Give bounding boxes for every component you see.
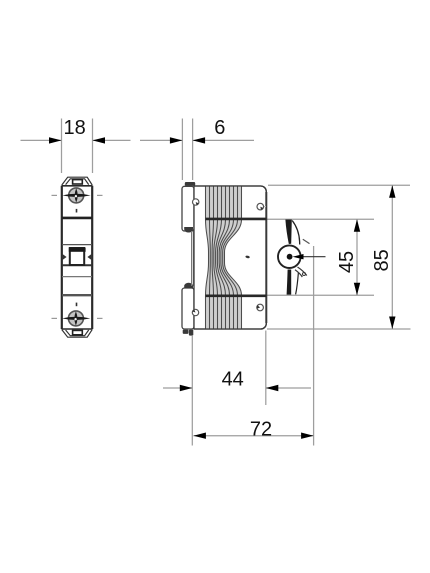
svg-text:45: 45 xyxy=(336,251,358,273)
svg-text:72: 72 xyxy=(250,419,272,441)
side view small moulding mark xyxy=(245,255,250,258)
dimension 85 (overall height) xyxy=(267,185,411,329)
side view rail plane strip between tabs xyxy=(192,231,194,286)
dimension 45 (toggle span) xyxy=(267,219,374,295)
toggle alternate position fork xyxy=(295,267,307,277)
dimension 18 (front view width) xyxy=(21,119,131,174)
toggle pivot dot xyxy=(287,254,293,260)
svg-text:85: 85 xyxy=(371,249,393,271)
svg-text:18: 18 xyxy=(63,117,85,139)
front view bottom cap xyxy=(62,330,92,338)
front view toggle handle xyxy=(69,248,86,265)
side view rivet on bottom tab xyxy=(192,309,198,315)
toggle lever bottom blade xyxy=(287,270,299,295)
front view pin label 2 xyxy=(76,303,78,307)
toggle lever top blade xyxy=(285,220,299,245)
dimension 44 (body depth) xyxy=(163,331,311,446)
svg-text:44: 44 xyxy=(222,369,244,391)
front view pin label 1 xyxy=(76,209,78,213)
front view terminal screw top xyxy=(52,188,103,203)
side view rivet on top tab xyxy=(193,199,199,205)
side view rivet on top-right block xyxy=(257,203,266,210)
side view clip bottom lug xyxy=(183,330,194,336)
side view lower dark ledge line xyxy=(206,294,267,297)
toggle travel tick upper xyxy=(303,239,310,243)
front view breaker body xyxy=(62,186,93,329)
side view breaker body outline xyxy=(194,186,266,329)
side view body edge redraw xyxy=(194,186,266,329)
svg-text:6: 6 xyxy=(214,117,225,139)
dimension 72 (overall depth) xyxy=(193,246,313,446)
front view terminal screw bottom xyxy=(52,311,103,326)
dimension 6 (rail clip depth) xyxy=(140,119,254,181)
toggle leader arrow xyxy=(293,254,326,259)
front view toggle side markers xyxy=(62,254,92,261)
side view upper dark ledge line xyxy=(206,218,267,221)
side view rib band fill xyxy=(206,186,242,329)
side view DIN rail clip top tab xyxy=(182,182,195,233)
side view DIN rail clip bottom tab xyxy=(182,283,194,329)
front view interior horizontal lines xyxy=(62,218,92,295)
side view rivet on bottom-right block xyxy=(257,304,264,311)
front view top cap xyxy=(62,177,92,185)
toggle pivot circle xyxy=(278,245,301,268)
side view rib lines xyxy=(206,186,242,329)
